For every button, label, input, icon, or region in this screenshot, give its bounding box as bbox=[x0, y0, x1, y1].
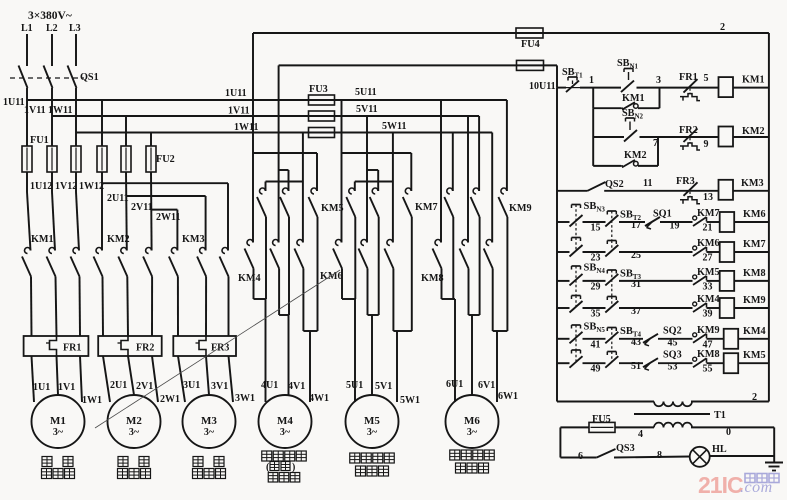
node 1W12 label bbox=[79, 181, 104, 192]
svg-text:SQ2: SQ2 bbox=[663, 325, 682, 336]
node 1W1 label bbox=[82, 395, 102, 406]
wire KM1 to FR1 bbox=[31, 277, 80, 337]
button pole mid row KM4 bbox=[605, 328, 618, 352]
svg-text:KM2: KM2 bbox=[742, 126, 765, 137]
node 45 label bbox=[668, 337, 678, 348]
svg-text:SQ3: SQ3 bbox=[663, 350, 682, 361]
svg-text:KM7: KM7 bbox=[743, 239, 766, 250]
disconnect switch QS1 bbox=[10, 66, 99, 89]
svg-text:QS2: QS2 bbox=[605, 179, 624, 190]
label SQ3 bbox=[663, 350, 682, 361]
node 2W11 label bbox=[156, 212, 180, 223]
contactor KM1 main contacts bbox=[22, 248, 80, 277]
button pole mid row KM9 bbox=[605, 297, 618, 313]
contactor KM5 main contacts bbox=[257, 188, 318, 217]
node 5U1 label bbox=[346, 380, 363, 391]
label SBN4 bbox=[584, 263, 606, 276]
label KM1 aux bbox=[622, 93, 645, 104]
svg-text:FU5: FU5 bbox=[592, 414, 611, 425]
node 49 label bbox=[591, 364, 601, 375]
svg-text:49: 49 bbox=[591, 364, 601, 375]
node 8 label bbox=[657, 450, 662, 461]
label SQ1 bbox=[653, 209, 672, 220]
svg-text:3V1: 3V1 bbox=[211, 381, 228, 392]
svg-text:QS1: QS1 bbox=[80, 72, 99, 83]
svg-text:2V1: 2V1 bbox=[136, 381, 153, 392]
fuse FU3 pole 1 bbox=[309, 95, 335, 105]
svg-text:SBN4: SBN4 bbox=[584, 263, 606, 276]
svg-text:37: 37 bbox=[631, 306, 641, 317]
wire FR3 to M3 bbox=[178, 356, 233, 402]
label FR2 aux bbox=[679, 125, 698, 136]
node 3 label bbox=[656, 75, 661, 86]
svg-text:FR3: FR3 bbox=[676, 176, 695, 187]
wire M5 feed phase C bbox=[355, 133, 393, 243]
node 13 label bbox=[703, 192, 713, 203]
limit switch SQ1 bbox=[645, 217, 660, 229]
wire 2V11 branch bbox=[126, 196, 206, 251]
svg-text:M5: M5 bbox=[364, 415, 380, 427]
node 6U1 label bbox=[446, 379, 463, 390]
thermal contact FR2 aux bbox=[680, 129, 700, 151]
svg-text:KM5: KM5 bbox=[743, 350, 766, 361]
contactor KM6 main contacts bbox=[333, 240, 393, 269]
contactor KM3 main contacts bbox=[169, 248, 229, 277]
fuse FU3 pole 3 bbox=[309, 128, 335, 138]
svg-text:9: 9 bbox=[704, 139, 709, 150]
node 33 label bbox=[703, 281, 713, 292]
fuse FU1 pole 3 bbox=[71, 146, 81, 172]
label SBN3 bbox=[584, 201, 606, 214]
coil KM3 bbox=[719, 180, 734, 200]
svg-text:M4: M4 bbox=[277, 415, 293, 427]
svg-text:FU3: FU3 bbox=[309, 84, 328, 95]
wire L3 drop bbox=[75, 34, 77, 66]
svg-text:KM6: KM6 bbox=[697, 238, 720, 249]
node 27 label bbox=[703, 253, 713, 264]
node 1V11 label bbox=[24, 105, 46, 116]
label KM5 coil bbox=[743, 350, 766, 361]
wire M4 outputs merge bbox=[254, 217, 318, 402]
svg-text:11: 11 bbox=[643, 178, 652, 189]
coil KM6 bbox=[720, 212, 735, 232]
motor M4 caption bbox=[262, 451, 307, 482]
svg-text:SBN3: SBN3 bbox=[584, 201, 606, 214]
svg-text:3~: 3~ bbox=[204, 427, 215, 438]
coil KM4 bbox=[724, 329, 739, 349]
svg-text:FR2: FR2 bbox=[679, 125, 698, 136]
node 4W1 label bbox=[309, 393, 329, 404]
svg-text:45: 45 bbox=[668, 337, 678, 348]
label KM8 coil bbox=[743, 268, 766, 279]
svg-text:FR2: FR2 bbox=[136, 343, 154, 354]
node 1U1 label bbox=[33, 382, 50, 393]
label HL bbox=[712, 444, 727, 455]
coil KM9 bbox=[720, 298, 735, 318]
bus 1V11 bbox=[52, 88, 479, 146]
svg-text:KM7: KM7 bbox=[415, 202, 438, 213]
wire row KM8 bbox=[557, 280, 769, 282]
svg-text:KM9: KM9 bbox=[509, 203, 532, 214]
transformer T1 secondary bbox=[654, 423, 692, 428]
fuse FU2 label bbox=[156, 154, 175, 165]
node 37 label bbox=[631, 306, 641, 317]
button pole mid row KM6 bbox=[605, 211, 618, 241]
label KM6 coil bbox=[743, 209, 766, 220]
svg-text:M6: M6 bbox=[464, 415, 480, 427]
label FR1 aux bbox=[679, 72, 698, 83]
wire FU2 outputs down bbox=[102, 172, 152, 251]
svg-text:1W1: 1W1 bbox=[82, 395, 102, 406]
fuse FU1 pole 2 bbox=[47, 146, 57, 172]
label KM2 aux bbox=[624, 150, 647, 161]
limit switch SQ2 bbox=[643, 334, 658, 346]
lamp HL bbox=[690, 447, 710, 467]
svg-text:35: 35 bbox=[591, 309, 601, 320]
watermark .com bbox=[740, 479, 773, 496]
coil KM1 bbox=[719, 77, 734, 97]
node 2U1 label bbox=[110, 380, 127, 391]
svg-text:KM2: KM2 bbox=[624, 150, 647, 161]
node 6V1 label bbox=[478, 380, 495, 391]
svg-text:KM4: KM4 bbox=[697, 294, 720, 305]
motor M1 caption bbox=[42, 457, 75, 479]
node 4V1 label bbox=[288, 381, 305, 392]
wire 10U11 rail bbox=[279, 65, 557, 116]
wire row KM6 bbox=[557, 221, 769, 223]
wire M6 outputs merge bbox=[442, 217, 508, 402]
label 5U11 bbox=[355, 87, 377, 98]
label KM6 NC bbox=[697, 238, 720, 249]
motor M6 bbox=[446, 395, 499, 448]
svg-text:5W11: 5W11 bbox=[382, 121, 406, 132]
svg-text:51: 51 bbox=[631, 361, 641, 372]
svg-text:1V12: 1V12 bbox=[55, 181, 77, 192]
fuse FU2 pole 3 bbox=[146, 146, 156, 172]
contactor KM4 label bbox=[238, 273, 261, 284]
node 10U11 label bbox=[529, 81, 556, 92]
wire KM9 feeds from bus ends bbox=[453, 100, 507, 191]
svg-text:KM4: KM4 bbox=[743, 326, 766, 337]
svg-text:1: 1 bbox=[589, 75, 594, 86]
start button SBN2 bbox=[624, 118, 637, 142]
label QS3 bbox=[616, 443, 635, 454]
svg-text:SBN2: SBN2 bbox=[622, 108, 644, 121]
wire row KM5 bbox=[557, 362, 769, 364]
label SBN2 bbox=[622, 108, 644, 121]
motor M3 bbox=[183, 395, 236, 448]
svg-text:10U11: 10U11 bbox=[529, 81, 556, 92]
svg-text:KM6: KM6 bbox=[743, 209, 766, 220]
ground symbol bbox=[765, 463, 783, 471]
svg-text:3~: 3~ bbox=[53, 427, 64, 438]
node 23 label bbox=[591, 253, 601, 264]
node 1U11 left label bbox=[3, 97, 25, 108]
motor M6 caption bbox=[450, 450, 495, 473]
wire FR1 to M1 bbox=[32, 356, 83, 402]
button pole mid row KM5 bbox=[605, 352, 618, 368]
wire L2 drop bbox=[51, 34, 53, 66]
node 35 label bbox=[591, 309, 601, 320]
svg-text:KM8: KM8 bbox=[421, 273, 444, 284]
fuse FU4 second pole bbox=[517, 60, 544, 70]
wire M6 feed phase B bbox=[467, 116, 469, 243]
node 11 label bbox=[643, 178, 652, 189]
node 0 label bbox=[726, 427, 731, 438]
svg-text:3×380V~: 3×380V~ bbox=[28, 10, 72, 22]
svg-text:SBN5: SBN5 bbox=[584, 322, 606, 335]
node 4U1 label bbox=[261, 380, 278, 391]
watermark 21IC bbox=[698, 472, 743, 498]
interlock contact KM7 NC bbox=[693, 216, 707, 226]
svg-text:55: 55 bbox=[703, 364, 713, 375]
node 17 label bbox=[631, 220, 641, 231]
svg-text:M2: M2 bbox=[126, 415, 142, 427]
node 3W1 label bbox=[235, 393, 255, 404]
wire 1W12 bbox=[76, 172, 79, 251]
motor M4 bbox=[259, 395, 312, 448]
interlock contact KM8 NC bbox=[693, 357, 707, 367]
label SBT2 bbox=[620, 210, 642, 223]
svg-text:3~: 3~ bbox=[367, 427, 378, 438]
svg-text:41: 41 bbox=[591, 339, 601, 350]
label SBN1 bbox=[617, 58, 639, 71]
wire row1 bbox=[557, 87, 769, 89]
wire KM2 to FR2 bbox=[103, 277, 153, 337]
label KM4 NC bbox=[697, 294, 720, 305]
node 3U1 label bbox=[183, 380, 200, 391]
svg-text:KM1: KM1 bbox=[742, 75, 765, 86]
node 15 label bbox=[591, 223, 601, 234]
svg-text:3~: 3~ bbox=[467, 427, 478, 438]
fuse FU4 bbox=[516, 28, 543, 50]
svg-text:KM1: KM1 bbox=[622, 93, 645, 104]
label KM7 NC bbox=[697, 208, 720, 219]
svg-text:KM8: KM8 bbox=[697, 349, 720, 360]
motor M2 caption bbox=[118, 457, 151, 479]
node 5 label bbox=[704, 73, 709, 84]
svg-text:4V1: 4V1 bbox=[288, 381, 305, 392]
motor M2 bbox=[108, 395, 161, 448]
label KM1 coil bbox=[742, 75, 765, 86]
node 1U12 label bbox=[30, 181, 52, 192]
wire control rail 2 top bbox=[253, 33, 769, 100]
label L3 bbox=[69, 23, 81, 34]
button pole mid row KM7 bbox=[605, 241, 618, 257]
wire left control rail bbox=[556, 88, 558, 402]
node 53 label bbox=[668, 362, 678, 373]
interlock contact KM6 NC bbox=[693, 246, 707, 256]
label SBT1 bbox=[562, 67, 583, 80]
label 3x380V supply bbox=[28, 10, 72, 22]
motor M3 caption bbox=[193, 457, 226, 479]
label 1W11 mid bbox=[234, 122, 258, 133]
switch QS2 bbox=[588, 182, 606, 191]
node 19 label bbox=[670, 221, 680, 232]
svg-text:KM9: KM9 bbox=[743, 295, 766, 306]
thermal relay FR1 bbox=[24, 336, 89, 356]
node 5V1 label bbox=[375, 381, 392, 392]
coil KM5 bbox=[724, 353, 739, 373]
button pole left row KM9 bbox=[570, 296, 583, 313]
button pole left row KM8 bbox=[570, 266, 583, 296]
svg-text:4W1: 4W1 bbox=[309, 393, 329, 404]
fuse FU2 taps bbox=[102, 100, 151, 146]
svg-text:1U11: 1U11 bbox=[3, 97, 25, 108]
svg-text:KM8: KM8 bbox=[743, 268, 766, 279]
wire row KM4 bbox=[557, 338, 769, 340]
svg-text:6: 6 bbox=[578, 451, 583, 462]
label L2 bbox=[46, 23, 58, 34]
node 47 label bbox=[703, 339, 713, 350]
fuse FU3 pole 2 bbox=[309, 111, 335, 121]
label SQ2 bbox=[663, 325, 682, 336]
contactor KM3 label bbox=[182, 234, 205, 245]
label 5W11 bbox=[382, 121, 406, 132]
motor M5 bbox=[346, 395, 399, 448]
bus 1U11 bbox=[27, 88, 507, 146]
wire M6 feed phase A bbox=[440, 100, 442, 243]
svg-text:1U12: 1U12 bbox=[30, 181, 52, 192]
label QS2 bbox=[605, 179, 624, 190]
svg-text:2: 2 bbox=[720, 22, 725, 33]
label FR3 aux bbox=[676, 176, 695, 187]
wire row KM9 bbox=[557, 307, 769, 309]
wire M4 feed phase A bbox=[253, 100, 317, 243]
wire 2U11 branch bbox=[102, 183, 228, 250]
node 1V1 label bbox=[58, 382, 75, 393]
wire M4 feed phase B bbox=[279, 116, 289, 243]
wire 2W11 branch bbox=[151, 210, 177, 251]
svg-text:HL: HL bbox=[712, 444, 727, 455]
svg-text:0: 0 bbox=[726, 427, 731, 438]
node 2U11 label bbox=[107, 193, 129, 204]
svg-text:M1: M1 bbox=[50, 415, 66, 427]
svg-text:27: 27 bbox=[703, 253, 713, 264]
button pole left row KM6 bbox=[570, 205, 583, 238]
wire secondary right bbox=[691, 427, 774, 462]
svg-text:FR1: FR1 bbox=[679, 72, 698, 83]
svg-text:3W1: 3W1 bbox=[235, 393, 255, 404]
svg-text:5V1: 5V1 bbox=[375, 381, 392, 392]
node 2V1 label bbox=[136, 381, 153, 392]
node 41 label bbox=[591, 339, 601, 350]
svg-text:5W1: 5W1 bbox=[400, 395, 420, 406]
label 2 bottom bbox=[752, 392, 757, 403]
node 43 label bbox=[631, 337, 641, 348]
label 1V11 mid bbox=[228, 106, 250, 117]
contactor KM1 label bbox=[31, 234, 54, 245]
transformer T1 core bbox=[634, 413, 710, 415]
label KM5 NC bbox=[697, 267, 720, 278]
label T1 bbox=[714, 410, 726, 421]
svg-text:6W1: 6W1 bbox=[498, 391, 518, 402]
svg-text:2W1: 2W1 bbox=[160, 394, 180, 405]
wire 1V12 bbox=[52, 172, 55, 251]
svg-text:FU1: FU1 bbox=[30, 135, 49, 146]
label 1U11 mid bbox=[225, 88, 247, 99]
svg-text:L1: L1 bbox=[21, 23, 33, 34]
node 55 label bbox=[703, 364, 713, 375]
stop button SBT1 bbox=[566, 77, 580, 92]
svg-text:FU4: FU4 bbox=[521, 39, 540, 50]
watermark dianziwang bbox=[745, 474, 779, 483]
wire secondary left / FU5 line bbox=[560, 427, 654, 457]
label 2 top bbox=[720, 22, 725, 33]
svg-text:3U1: 3U1 bbox=[183, 380, 200, 391]
node 51 label bbox=[631, 361, 641, 372]
button pole mid row KM8 bbox=[605, 270, 618, 297]
label FU5 bbox=[592, 414, 611, 425]
wire row KM7 bbox=[557, 251, 769, 253]
svg-text:39: 39 bbox=[703, 309, 713, 320]
motor M1 bbox=[32, 395, 85, 448]
svg-text:13: 13 bbox=[703, 192, 713, 203]
svg-text:L3: L3 bbox=[69, 23, 81, 34]
wire M5 feed phase B bbox=[367, 116, 378, 243]
button pole left row KM4 bbox=[570, 325, 583, 350]
svg-text:3~: 3~ bbox=[129, 427, 140, 438]
interlock contact KM9 NC bbox=[693, 333, 707, 343]
fuse FU2 pole 1 bbox=[97, 146, 107, 172]
fuse FU1 label bbox=[30, 135, 49, 146]
svg-text:5V11: 5V11 bbox=[356, 104, 378, 115]
label KM9 coil bbox=[743, 295, 766, 306]
svg-text:53: 53 bbox=[668, 362, 678, 373]
node 2W1 label bbox=[160, 394, 180, 405]
svg-text:1U11: 1U11 bbox=[225, 88, 247, 99]
svg-text:SBT1: SBT1 bbox=[562, 67, 583, 80]
svg-text:19: 19 bbox=[670, 221, 680, 232]
wire M5 feed phase A bbox=[342, 100, 412, 243]
svg-text:.com: .com bbox=[740, 479, 773, 496]
node 5W1 label bbox=[400, 395, 420, 406]
label L1 bbox=[21, 23, 33, 34]
node 1 label bbox=[589, 75, 594, 86]
contactor KM2 label bbox=[107, 234, 130, 245]
svg-text:15: 15 bbox=[591, 223, 601, 234]
svg-text:4: 4 bbox=[638, 429, 643, 440]
label KM2 coil bbox=[742, 126, 765, 137]
svg-text:5U1: 5U1 bbox=[346, 380, 363, 391]
node 25 label bbox=[631, 250, 641, 261]
svg-text:KM5: KM5 bbox=[697, 267, 720, 278]
node 31 label bbox=[631, 279, 641, 290]
contactor KM7 label bbox=[415, 202, 438, 213]
node 9 label bbox=[704, 139, 709, 150]
wire M4 feed phase C bbox=[266, 133, 303, 243]
wire lamp row bbox=[560, 456, 774, 458]
svg-text:KM3: KM3 bbox=[182, 234, 205, 245]
svg-text:T1: T1 bbox=[714, 410, 726, 421]
svg-text:1W12: 1W12 bbox=[79, 181, 104, 192]
svg-text:25: 25 bbox=[631, 250, 641, 261]
node 7 label bbox=[653, 138, 658, 149]
transformer T1 primary bbox=[654, 402, 692, 407]
svg-text:1V1: 1V1 bbox=[58, 382, 75, 393]
node 4 label bbox=[638, 429, 643, 440]
wire M5 outputs merge bbox=[342, 217, 412, 402]
label KM3 coil bbox=[741, 178, 764, 189]
interlock contact KM5 NC bbox=[693, 275, 707, 285]
contactor KM9 label bbox=[509, 203, 532, 214]
wire row3 bbox=[557, 190, 769, 192]
svg-text:5: 5 bbox=[704, 73, 709, 84]
contactor KM8 main contacts bbox=[433, 240, 493, 269]
wire row2 bbox=[593, 108, 769, 166]
motor M5 caption bbox=[350, 453, 395, 476]
svg-text:2: 2 bbox=[752, 392, 757, 403]
